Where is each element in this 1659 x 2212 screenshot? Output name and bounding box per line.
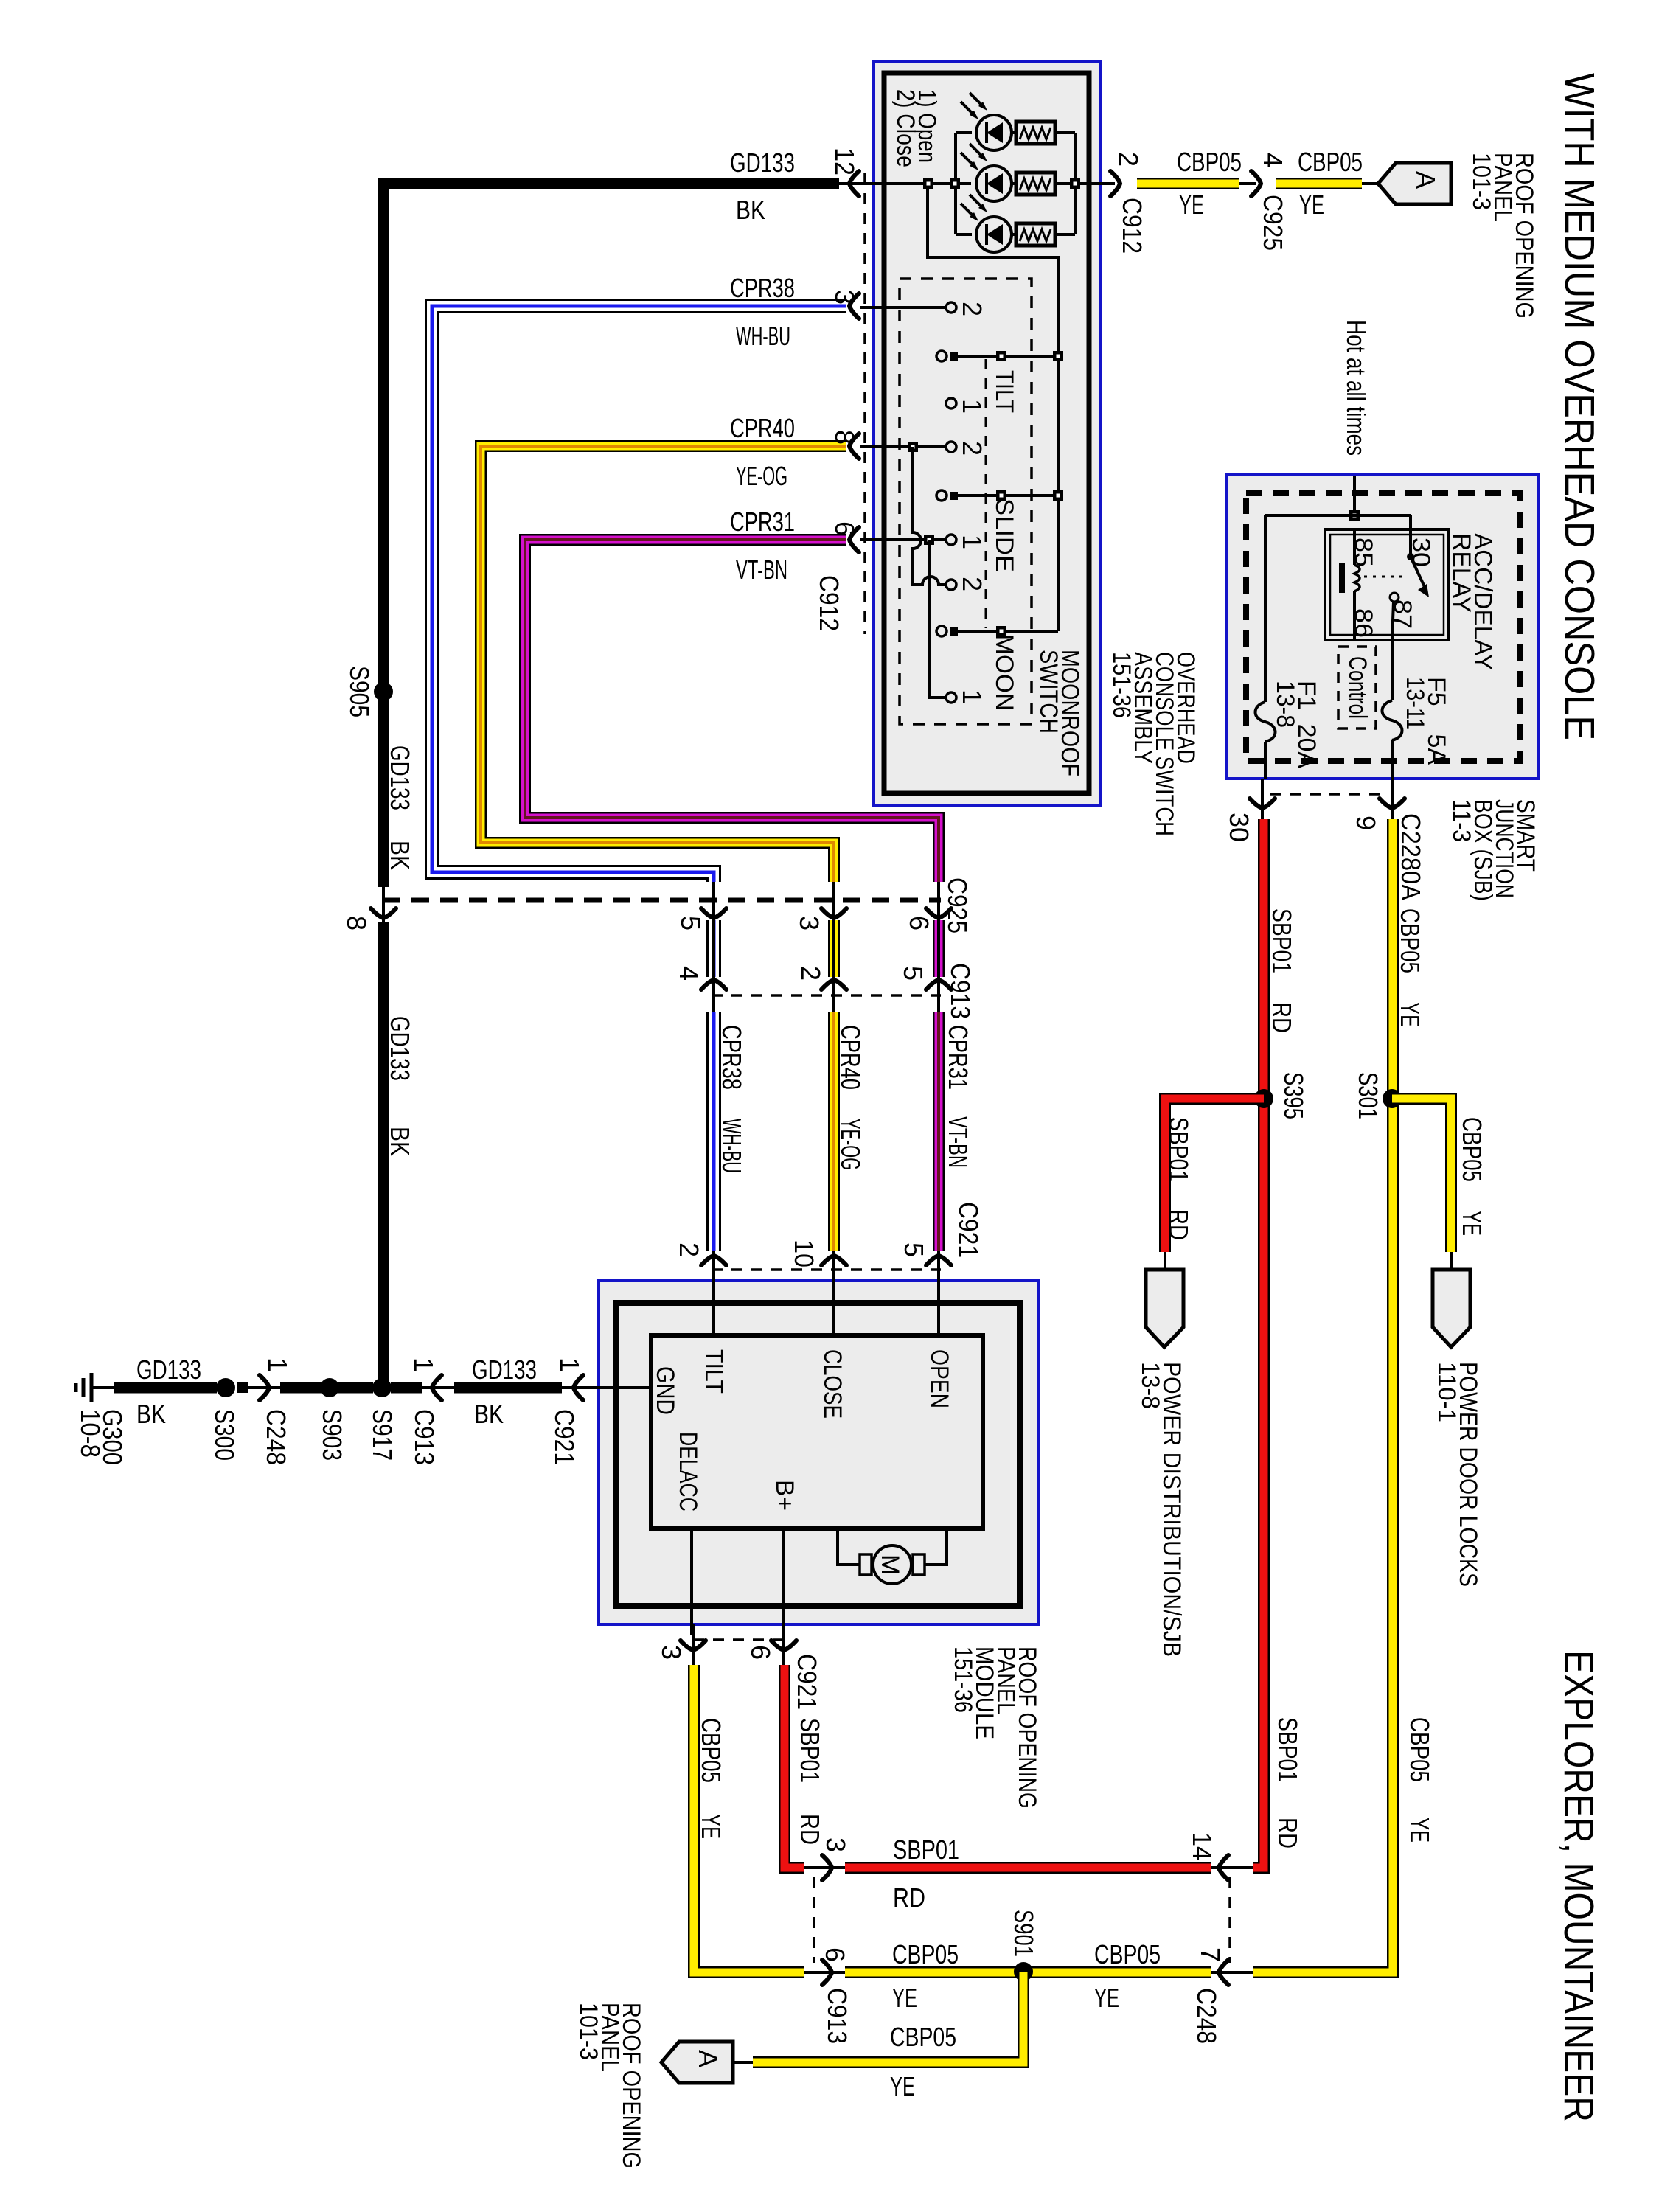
- pin label 3 (module DELACC exit): [656, 1645, 686, 1660]
- power door locks pendant: [1433, 1270, 1470, 1347]
- svg-text:SBP01: SBP01: [1273, 1717, 1303, 1782]
- MOON common pin: [936, 626, 1058, 636]
- C2280A dashed connector line: [1270, 793, 1387, 796]
- svg-text:1: 1: [408, 1357, 439, 1372]
- svg-text:C912: C912: [1117, 198, 1147, 254]
- control dashed box: [1338, 647, 1376, 728]
- svg-text:BK: BK: [385, 841, 415, 870]
- svg-text:CBP05: CBP05: [1298, 147, 1363, 177]
- svg-text:C921: C921: [549, 1409, 580, 1465]
- label CPR38 (top wire): [730, 273, 795, 303]
- svg-text:CBP05: CBP05: [1457, 1117, 1487, 1182]
- svg-text:RELAY: RELAY: [1447, 533, 1475, 613]
- svg-text:S300: S300: [209, 1409, 240, 1461]
- MOON pin 1: [946, 692, 956, 703]
- label C921 (above module): [953, 1202, 984, 1258]
- svg-text:5: 5: [899, 1242, 929, 1257]
- svg-text:C925: C925: [942, 877, 973, 933]
- label SLIDE (switch): [990, 498, 1018, 572]
- pin labels 5 3 6 (C925 row): [675, 916, 934, 931]
- label POWER DISTRIBUTION/SJB 13-8: [1136, 1362, 1186, 1657]
- svg-text:13-8: 13-8: [1271, 681, 1299, 728]
- label YE (row C): [890, 2071, 915, 2101]
- svg-text:86: 86: [1349, 608, 1377, 638]
- pin label 2 (C912 right): [1113, 152, 1144, 167]
- svg-text:S301: S301: [1353, 1072, 1383, 1119]
- svg-text:BK: BK: [736, 195, 765, 225]
- roof opening panel module outer box (blue): [599, 1281, 1039, 1624]
- svg-text:C913: C913: [945, 963, 975, 1019]
- wire GD133 BK (pin 12 to S917): [383, 184, 884, 1382]
- svg-text:5: 5: [898, 966, 928, 981]
- svg-text:SBP01: SBP01: [795, 1718, 825, 1783]
- svg-text:12: 12: [829, 147, 860, 175]
- wire SBP01 RD row A: [804, 1866, 1253, 1869]
- label ACC/DELAY RELAY: [1447, 533, 1497, 670]
- module body rect: [651, 1335, 983, 1528]
- label C925: [942, 877, 973, 933]
- svg-text:1: 1: [554, 1357, 585, 1372]
- C925 row arrows (down): [371, 908, 396, 918]
- label C925 (top): [1258, 195, 1288, 251]
- label CPR31 (top wire): [730, 507, 795, 537]
- svg-text:85: 85: [1349, 538, 1377, 567]
- svg-text:S395: S395: [1279, 1072, 1309, 1119]
- module pin labels TILT CLOSE OPEN GND DELACC B+: [651, 1349, 953, 1512]
- wire CBP05 YE S901 drop to row C: [733, 1972, 1023, 2062]
- label GD133 BK (ground run right): [472, 1354, 537, 1429]
- label CPR31 VT-BN (middle vertical): [943, 1025, 973, 1168]
- svg-text:B+: B+: [771, 1480, 799, 1511]
- svg-text:3: 3: [794, 916, 824, 931]
- label S905: [344, 666, 375, 717]
- svg-text:SBP01: SBP01: [1164, 1117, 1194, 1182]
- svg-text:30: 30: [1407, 538, 1435, 567]
- label YE (row B left): [892, 1983, 917, 2013]
- SJB exit arrows pin 30 and 9: [1250, 799, 1275, 808]
- pin label 1 (C248 ground): [262, 1357, 293, 1372]
- LED cathode bus: [1055, 133, 1089, 234]
- svg-text:2: 2: [957, 302, 987, 316]
- MOON pin 2: [946, 580, 956, 590]
- svg-text:WH-BU: WH-BU: [717, 1119, 747, 1173]
- svg-text:101-3: 101-3: [574, 2003, 602, 2060]
- svg-text:C913: C913: [822, 1988, 852, 2044]
- svg-text:M: M: [876, 1554, 904, 1575]
- label SMART JUNCTION BOX (SJB) 11-3: [1447, 799, 1540, 901]
- svg-text:S905: S905: [344, 666, 375, 717]
- svg-text:14: 14: [1187, 1832, 1217, 1860]
- label CBP05 (top segment 2): [1298, 147, 1363, 177]
- svg-text:CBP05: CBP05: [696, 1718, 726, 1783]
- smart junction box SJB (blue): [1226, 475, 1538, 779]
- svg-text:C921: C921: [792, 1654, 822, 1710]
- SLIDE common pin: [936, 490, 1063, 501]
- TILT pin 1: [946, 398, 956, 408]
- svg-text:YE: YE: [1395, 1002, 1425, 1027]
- svg-text:3: 3: [656, 1645, 686, 1660]
- svg-text:87: 87: [1388, 599, 1416, 629]
- label CPR40 YE-OG (middle vertical): [835, 1025, 866, 1170]
- svg-text:2: 2: [957, 441, 987, 456]
- LED 3 with resistor: [961, 195, 1055, 252]
- svg-text:VT-BN: VT-BN: [736, 554, 787, 585]
- svg-text:CBP05: CBP05: [1094, 1939, 1161, 1969]
- label F5 13-11 5A: [1401, 677, 1450, 765]
- wire CBP05 YE row B: [804, 1971, 1253, 1974]
- connector arrow CPR31 pin6 (switch box): [849, 527, 859, 552]
- label VT-BN (top wire): [736, 554, 787, 585]
- C913 row arrows (up): [701, 980, 726, 990]
- relay coil pin 85: [1339, 529, 1360, 640]
- branch CPR31 to MOON pin1: [929, 540, 946, 698]
- svg-text:4: 4: [1258, 153, 1288, 167]
- moonroof switch assembly outer box (blue): [874, 61, 1100, 805]
- label GD133 BK (vertical, upper): [385, 745, 415, 870]
- label ROOF OPENING PANEL MODULE 151-36: [949, 1646, 1041, 1809]
- svg-text:1: 1: [957, 535, 987, 549]
- label SBP01 RD (pin6 drop): [795, 1718, 825, 1845]
- svg-text:WH-BU: WH-BU: [736, 321, 790, 351]
- svg-text:CBP05: CBP05: [1177, 147, 1242, 177]
- svg-text:YE-OG: YE-OG: [736, 461, 787, 491]
- pin label 14 (row A right): [1187, 1832, 1217, 1860]
- label SBP01 RD (upper right vertical): [1267, 908, 1297, 1033]
- svg-text:2: 2: [1113, 152, 1144, 167]
- wire CPR38 WH-BU (pin 3 to module TILT): [432, 306, 846, 1335]
- pin label 1 (C913 ground): [408, 1357, 439, 1372]
- svg-text:5: 5: [675, 916, 706, 931]
- svg-text:10-8: 10-8: [75, 1409, 105, 1458]
- svg-text:S903: S903: [317, 1409, 347, 1461]
- svg-text:11-3: 11-3: [1447, 799, 1475, 842]
- svg-text:YE: YE: [1299, 189, 1324, 220]
- splice S901: [1014, 1962, 1033, 1981]
- svg-text:CPR38: CPR38: [730, 273, 795, 303]
- svg-text:C921: C921: [953, 1202, 984, 1258]
- svg-text:TILT: TILT: [700, 1349, 728, 1394]
- svg-text:101-3: 101-3: [1467, 153, 1495, 210]
- switch common bus: [1057, 356, 1060, 631]
- TILT pin 2: [860, 302, 956, 313]
- svg-text:2) Close: 2) Close: [891, 89, 919, 167]
- moonroof switch assembly inner box: [884, 73, 1089, 793]
- svg-text:YE: YE: [1179, 189, 1204, 220]
- label MOON (switch): [990, 634, 1018, 711]
- connector arrow C248 pin1: [260, 1375, 269, 1400]
- connector arrow C912 pin2: [1110, 171, 1120, 196]
- svg-text:A: A: [693, 2050, 723, 2067]
- svg-text:BK: BK: [385, 1127, 415, 1156]
- pin label 3 (switch box): [829, 290, 860, 305]
- SLIDE pin 1: [860, 535, 956, 545]
- power distribution pendant: [1146, 1270, 1183, 1347]
- C921 row arrows (up): [701, 1256, 726, 1265]
- splice S905: [374, 682, 393, 701]
- svg-text:TILT: TILT: [990, 370, 1018, 413]
- fuse F1 20A: [1256, 702, 1276, 779]
- svg-text:OPEN: OPEN: [925, 1349, 953, 1408]
- label SBP01 (row A): [893, 1834, 959, 1865]
- svg-text:10: 10: [789, 1239, 819, 1267]
- svg-text:VT-BN: VT-BN: [943, 1116, 973, 1168]
- label M (motor): [876, 1554, 904, 1575]
- svg-text:8: 8: [829, 430, 860, 445]
- TILT common pin: [936, 351, 1063, 361]
- SJB inner dashed box: [1246, 493, 1520, 761]
- svg-text:C913: C913: [409, 1409, 439, 1465]
- pin label 6 (row B left): [820, 1947, 850, 1962]
- svg-text:CPR38: CPR38: [717, 1025, 747, 1090]
- connector arrow CPR38 pin3 (switch box): [849, 293, 859, 319]
- label POWER DOOR LOCKS 110-1: [1433, 1362, 1482, 1587]
- label CBP05 (row B left): [892, 1939, 959, 1969]
- svg-text:SLIDE: SLIDE: [990, 498, 1018, 572]
- label CBP05 YE (branch to power door locks): [1457, 1117, 1487, 1236]
- svg-text:RD: RD: [893, 1882, 925, 1913]
- svg-text:YE: YE: [890, 2071, 915, 2101]
- svg-text:CPR31: CPR31: [943, 1025, 973, 1090]
- roof opening panel module inner box: [616, 1303, 1020, 1606]
- label A (bottom pendant): [693, 2050, 723, 2067]
- row A connector arrows pin3 / pin14: [822, 1855, 832, 1880]
- wire GD133 BK ground run: [93, 1382, 651, 1393]
- acc/delay relay box: [1325, 529, 1449, 640]
- svg-text:C248: C248: [261, 1409, 291, 1465]
- wire SBP01 RD branch to power distribution: [1165, 1099, 1264, 1271]
- svg-text:CBP05: CBP05: [1405, 1717, 1435, 1782]
- svg-text:BK: BK: [136, 1399, 166, 1429]
- svg-text:MOON: MOON: [990, 634, 1018, 711]
- svg-text:C248: C248: [1192, 1988, 1222, 2044]
- splice S903: [320, 1378, 339, 1397]
- switch pin number labels: [957, 302, 987, 704]
- connector arrow GD133 pin12 (switch box): [849, 171, 859, 196]
- pin label 1 (C921 ground): [554, 1357, 585, 1372]
- svg-text:YE: YE: [696, 1814, 726, 1839]
- svg-text:151-36: 151-36: [949, 1646, 977, 1713]
- svg-text:YE: YE: [1094, 1983, 1119, 2013]
- splice S395: [1254, 1089, 1273, 1108]
- svg-text:C2280A: C2280A: [1396, 813, 1426, 900]
- svg-text:30: 30: [1224, 813, 1254, 842]
- label YE (top segment 1): [1179, 189, 1204, 220]
- label RD (row A): [893, 1882, 925, 1913]
- label BK (top wire): [736, 195, 765, 225]
- label G300 10-8: [75, 1409, 128, 1465]
- label MOONROOF SWITCH: [1034, 650, 1084, 776]
- label GD133 BK (ground run left): [136, 1354, 201, 1429]
- pin label 12 (switch box): [829, 147, 860, 175]
- wire CBP05 YE module pin3 drop: [693, 1624, 804, 1972]
- label S901: [1009, 1910, 1039, 1957]
- svg-text:CBP05: CBP05: [1395, 908, 1425, 973]
- label 1) Open 2) Close: [891, 89, 941, 167]
- label CBP05 (top segment 1): [1177, 147, 1242, 177]
- C921 dashed connector line: [712, 1268, 941, 1271]
- LED cathode bus junction: [1070, 178, 1080, 189]
- svg-text:S901: S901: [1009, 1910, 1039, 1957]
- svg-text:3: 3: [829, 290, 860, 305]
- label S917: [367, 1409, 397, 1461]
- ground G300 symbol: [76, 1373, 91, 1402]
- label S395: [1279, 1072, 1309, 1119]
- label YE (row B right): [1094, 1983, 1119, 2013]
- svg-text:YE: YE: [1457, 1211, 1487, 1236]
- wire CBP05 YE (C912 pin2 to A connector, top): [1089, 182, 1380, 185]
- svg-text:1: 1: [957, 399, 987, 414]
- label CBP05 YE (pin3 drop): [696, 1718, 726, 1839]
- label CBP05 (row B right): [1094, 1939, 1161, 1969]
- module GND wire entry: [590, 1386, 651, 1389]
- C925 dashed connector line: [383, 898, 941, 903]
- label C913 (ground run): [409, 1409, 439, 1465]
- svg-text:SBP01: SBP01: [893, 1834, 959, 1865]
- svg-text:7: 7: [1195, 1947, 1225, 1962]
- splice S917: [372, 1378, 392, 1397]
- wire CPR31 VT-BN (pin 6 to module OPEN): [525, 540, 939, 1335]
- moonroof switch dashed box: [900, 279, 1032, 724]
- pin label 4 (C925): [1258, 153, 1288, 167]
- label S903: [317, 1409, 347, 1461]
- svg-text:CPR40: CPR40: [835, 1025, 866, 1090]
- pin label 30 (SJB exit): [1224, 813, 1254, 842]
- pin label 9 (SJB exit): [1351, 815, 1381, 830]
- relay switch pin 30 to 87: [1390, 529, 1429, 640]
- label ROOF OPENING PANEL 101-3 (bottom left): [574, 2003, 645, 2168]
- svg-text:4: 4: [674, 966, 704, 981]
- svg-text:GD133: GD133: [472, 1354, 537, 1385]
- C912 dashed connector line (left of switch box): [863, 173, 866, 634]
- connector arrow C913 pin1: [432, 1375, 442, 1400]
- svg-text:GND: GND: [651, 1366, 679, 1415]
- wire CBP05 YE (SJB pin9 down to S301 and row B): [1253, 779, 1393, 1972]
- connector arrow C925 pin4: [1251, 171, 1261, 196]
- label Hot at all times: [1341, 320, 1371, 456]
- switch feed drop wire: [928, 188, 1058, 356]
- svg-text:8: 8: [341, 916, 372, 931]
- splice S301: [1382, 1089, 1402, 1108]
- connector arrow C921 pin1: [574, 1375, 583, 1400]
- label OVERHEAD CONSOLE SWITCH ASSEMBLY 151-36: [1107, 652, 1200, 836]
- svg-text:RD: RD: [795, 1814, 825, 1845]
- label C921 (ground run): [549, 1409, 580, 1465]
- label C2280A: [1396, 813, 1426, 900]
- label S300: [209, 1409, 240, 1461]
- svg-text:WITH MEDIUM OVERHEAD CONSOLE: WITH MEDIUM OVERHEAD CONSOLE: [1556, 73, 1603, 740]
- SJB internal bus wire: [1265, 515, 1411, 702]
- row B connector arrows pin6 / pin7: [822, 1960, 832, 1985]
- svg-text:S917: S917: [367, 1409, 397, 1461]
- label CPR38 WH-BU (middle vertical): [717, 1025, 747, 1173]
- svg-text:EXPLORER, MOUNTAINEER: EXPLORER, MOUNTAINEER: [1555, 1650, 1602, 2122]
- label GD133 BK (vertical, lower): [385, 1016, 415, 1156]
- svg-text:9: 9: [1351, 815, 1381, 830]
- svg-text:GD133: GD133: [385, 1016, 415, 1081]
- label TILT (switch): [990, 370, 1018, 413]
- svg-text:CLOSE: CLOSE: [818, 1349, 846, 1419]
- switch feed tap node: [923, 178, 933, 189]
- pin labels 4 2 5 (C913 row): [674, 966, 928, 981]
- switch rocker dashed line: [985, 359, 987, 628]
- branch CPR40 to MOON pin2 (with hops): [913, 447, 946, 585]
- svg-text:151-36: 151-36: [1107, 652, 1135, 718]
- LED feed wire (pin12 into LEDs): [860, 182, 971, 185]
- C921 dashed connector line (module bottom): [693, 1638, 784, 1641]
- pin labels 2 10 5 (C921 row): [674, 1239, 929, 1267]
- svg-text:GD133: GD133: [730, 147, 795, 178]
- label SBP01 RD (branch to power distribution): [1164, 1117, 1194, 1240]
- svg-text:YE-OG: YE-OG: [835, 1119, 866, 1170]
- label ROOF OPENING PANEL 101-3 (top right): [1467, 153, 1538, 319]
- svg-text:6: 6: [745, 1645, 776, 1660]
- label YE-OG (top wire): [736, 461, 787, 491]
- svg-text:RD: RD: [1164, 1209, 1194, 1240]
- fuse F5 5A: [1382, 640, 1402, 779]
- svg-text:13-8: 13-8: [1136, 1362, 1164, 1409]
- splice S300: [216, 1378, 235, 1397]
- svg-text:SBP01: SBP01: [1267, 908, 1297, 973]
- svg-text:GD133: GD133: [385, 745, 415, 810]
- svg-text:C912: C912: [814, 575, 844, 631]
- label C913: [945, 963, 975, 1019]
- svg-text:1: 1: [957, 689, 987, 704]
- pin label 3 (row A left): [821, 1837, 851, 1852]
- svg-text:DELACC: DELACC: [674, 1432, 702, 1512]
- label C248 (row B): [1192, 1988, 1222, 2044]
- label C912 (right of switch box): [1117, 198, 1147, 254]
- C913 dashed vertical (row A to row B): [813, 1877, 815, 1963]
- pin label 7 (row B right): [1195, 1947, 1225, 1962]
- pin label 6 (module B+ exit): [745, 1645, 776, 1660]
- svg-text:YE: YE: [892, 1983, 917, 2013]
- label WH-BU (top wire): [736, 321, 790, 351]
- LED 1 with resistor: [961, 93, 1055, 150]
- label A (top pendant): [1411, 171, 1441, 189]
- label GD133 (top wire): [730, 147, 795, 178]
- wire CBP05 YE branch to power door locks: [1392, 1099, 1451, 1271]
- svg-text:2: 2: [957, 577, 987, 591]
- A connector pendant (bottom): [661, 2042, 733, 2083]
- svg-text:6: 6: [904, 916, 934, 931]
- label CBP05 (row C): [890, 2022, 956, 2052]
- wire SBP01 RD module pin6 drop: [784, 1624, 804, 1868]
- svg-text:CPR40: CPR40: [730, 413, 795, 443]
- module DELACC pin wire: [690, 1528, 693, 1635]
- svg-text:2: 2: [796, 966, 826, 981]
- relay mechanical link (dotted): [1364, 576, 1405, 578]
- svg-text:3: 3: [821, 1837, 851, 1852]
- label C921 (below module): [792, 1654, 822, 1710]
- svg-text:6: 6: [829, 521, 860, 536]
- LED 2 with resistor: [961, 144, 1055, 201]
- label S301: [1353, 1072, 1383, 1119]
- relay pin labels 85 30 86 87: [1349, 538, 1435, 638]
- connector arrow CPR40 pin8 (switch box): [849, 434, 859, 459]
- label C913 (row B): [822, 1988, 852, 2044]
- title EXPLORER, MOUNTAINEER: [1555, 1650, 1602, 2122]
- svg-text:CBP05: CBP05: [892, 1939, 959, 1969]
- svg-text:2: 2: [674, 1242, 704, 1257]
- C913 dashed connector line: [712, 994, 941, 997]
- svg-text:1: 1: [262, 1357, 293, 1372]
- pin label 8 (switch box): [829, 430, 860, 445]
- label C912 (below pin6 arrow): [814, 575, 844, 631]
- label CPR40 (top wire): [730, 413, 795, 443]
- SJB hot feed wire: [1353, 476, 1356, 515]
- pin label 6 (switch box): [829, 521, 860, 536]
- module exit arrows pins 3 and 6: [681, 1641, 706, 1650]
